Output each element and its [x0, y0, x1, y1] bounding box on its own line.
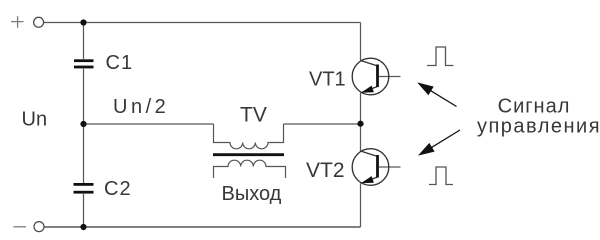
svg-text:TV: TV — [240, 104, 267, 127]
svg-text:Сигнал: Сигнал — [498, 96, 571, 118]
svg-text:VT1: VT1 — [309, 69, 346, 91]
svg-text:VT2: VT2 — [306, 159, 345, 182]
svg-text:C2: C2 — [104, 178, 132, 200]
svg-text:управления: управления — [477, 116, 600, 138]
svg-text:Un/2: Un/2 — [113, 96, 169, 118]
svg-text:Un: Un — [22, 109, 48, 131]
svg-text:Выход: Выход — [222, 183, 282, 205]
svg-text:C1: C1 — [106, 52, 134, 74]
